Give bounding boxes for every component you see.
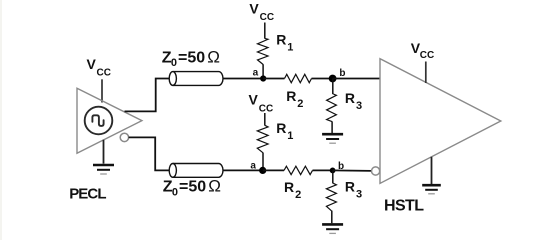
svg-text:1: 1 (287, 41, 293, 53)
svg-text:0: 0 (171, 57, 177, 69)
label R1 (bottom) (276, 120, 293, 142)
node a (top) (260, 75, 266, 81)
label R3 (top) (345, 90, 362, 112)
transmission line T2 (bottom coax cylinder) (169, 164, 223, 178)
wire node b to HSTL bubble (bottom) (333, 169, 372, 172)
label Z0=50ohm (top) (162, 47, 220, 69)
svg-text:2: 2 (297, 98, 303, 110)
op-amp U2 HSTL receiver triangle (380, 59, 501, 184)
HSTL ground stem (431, 157, 433, 184)
PECL Vcc wire (101, 79, 103, 102)
PECL Vcc label (87, 56, 111, 79)
svg-text:a: a (253, 67, 259, 78)
wire R3 to ground (top) (331, 121, 333, 133)
PECL ground bars (93, 165, 114, 174)
transmission line T1 (top coax cylinder) (169, 72, 223, 86)
op-amp U1 PECL driver triangle (77, 88, 142, 153)
node a (bottom) (259, 167, 266, 174)
wire node b down to R3 (top) (332, 79, 334, 95)
svg-text:CC: CC (97, 67, 111, 78)
wire R1 to node a (bottom) (262, 153, 264, 171)
wire: top cylinder to node a (223, 78, 263, 80)
PECL output bubble (120, 133, 128, 141)
wire: PECL inverted output to bottom line (129, 137, 170, 170)
HSTL Vcc wire (425, 62, 427, 84)
label R3 (bottom) (345, 179, 362, 201)
svg-text:HSTL: HSTL (384, 198, 424, 215)
Vcc label (bottom R1) (249, 92, 274, 115)
wire R2 to node b (bottom) (313, 169, 333, 171)
svg-text:R: R (284, 179, 294, 195)
node b (bottom) (330, 168, 336, 174)
Vcc label (top R1) (249, 0, 274, 23)
svg-text:=50: =50 (179, 179, 206, 196)
svg-text:3: 3 (356, 100, 362, 112)
svg-text:2: 2 (295, 189, 301, 201)
label R2 (top) (286, 88, 303, 110)
svg-text:R: R (276, 31, 286, 47)
svg-text:V: V (249, 92, 259, 108)
svg-text:Ω: Ω (207, 47, 220, 66)
wire Vcc to R1 (bottom) (264, 113, 266, 126)
resistor R2 (top) (285, 74, 312, 82)
svg-text:V: V (87, 56, 97, 72)
svg-text:PECL: PECL (69, 186, 106, 203)
resistor R1 (bottom) (257, 125, 268, 153)
resistor R3 (top) (327, 94, 337, 122)
wire node a to R2 (top) (263, 78, 284, 80)
HSTL ground bars (422, 185, 441, 194)
svg-text:CC: CC (420, 50, 434, 61)
svg-text:R: R (345, 90, 355, 106)
HSTL Vcc label (411, 40, 434, 61)
PECL ground stem (103, 140, 105, 164)
svg-text:3: 3 (356, 189, 362, 201)
svg-text:=50: =50 (178, 49, 205, 66)
label R2 (bottom) (284, 179, 301, 201)
svg-text:b: b (339, 68, 345, 79)
label R1 (top) (276, 31, 293, 53)
svg-text:R: R (286, 88, 296, 104)
square-wave glyph (92, 115, 103, 126)
HSTL input bubble (372, 167, 380, 175)
resistor R2 (bottom) (284, 166, 313, 174)
svg-text:R: R (345, 179, 355, 195)
wire R2 to node b (top) (312, 78, 333, 80)
ground (top R3) (322, 134, 343, 143)
wire Vcc to R1 (top) (264, 23, 266, 39)
wire node b to HSTL (top) (333, 78, 380, 80)
svg-text:1: 1 (287, 130, 293, 142)
node b (top) (329, 75, 337, 83)
wire node a to R2 (bottom) (263, 169, 284, 171)
svg-text:0: 0 (172, 187, 178, 199)
faint left edge line (0, 0, 2, 240)
wire R3 to ground (bottom) (331, 211, 333, 224)
svg-text:V: V (249, 0, 259, 16)
svg-text:R: R (276, 120, 286, 136)
svg-text:CC: CC (260, 12, 274, 23)
wire: bottom cylinder to node a (bottom) (223, 169, 263, 171)
source circle inside PECL (85, 107, 113, 135)
label Z0=50ohm (bottom) (163, 177, 221, 199)
resistor R1 (top) (258, 38, 269, 64)
wire: PECL true output to top line (125, 79, 170, 112)
wire R1 to node a (top) (262, 64, 264, 78)
wire node b down to R3 (bottom) (332, 170, 334, 183)
svg-text:Ω: Ω (208, 177, 221, 196)
svg-text:CC: CC (259, 103, 273, 114)
resistor R3 (bottom) (326, 183, 336, 211)
svg-text:a: a (250, 160, 256, 171)
ground (bottom R3) (322, 224, 343, 233)
